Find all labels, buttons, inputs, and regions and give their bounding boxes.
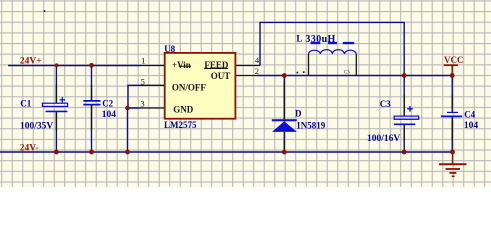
svg-text:3: 3 xyxy=(140,99,144,109)
svg-text:104: 104 xyxy=(102,110,117,120)
svg-text:C3: C3 xyxy=(380,99,391,109)
svg-text:C2: C2 xyxy=(102,99,113,109)
svg-text:D: D xyxy=(295,109,302,119)
svg-text:C3: C3 xyxy=(344,71,350,76)
svg-text:VCC: VCC xyxy=(444,55,464,65)
svg-text:L: L xyxy=(296,33,302,43)
svg-text:C4: C4 xyxy=(464,110,475,120)
svg-text:OUT: OUT xyxy=(211,71,231,81)
svg-text:100/16V: 100/16V xyxy=(367,134,400,144)
svg-text:ON/OFF: ON/OFF xyxy=(172,82,206,92)
svg-text:5: 5 xyxy=(141,76,145,86)
svg-text:LM2575: LM2575 xyxy=(164,120,197,130)
svg-text:1N5819: 1N5819 xyxy=(296,120,325,130)
svg-text:100/35V: 100/35V xyxy=(20,121,53,131)
svg-text:2: 2 xyxy=(255,66,259,76)
svg-text:330uH: 330uH xyxy=(305,34,335,45)
svg-text:24V-: 24V- xyxy=(20,143,39,153)
svg-text:24V+: 24V+ xyxy=(20,57,42,67)
svg-text:U8: U8 xyxy=(164,44,175,54)
svg-text:+Vin: +Vin xyxy=(172,60,191,70)
svg-text:C1: C1 xyxy=(20,98,31,108)
svg-text:104: 104 xyxy=(464,121,479,131)
svg-text:4: 4 xyxy=(255,55,260,65)
svg-text:GND: GND xyxy=(173,105,194,115)
svg-text:1: 1 xyxy=(141,55,145,65)
